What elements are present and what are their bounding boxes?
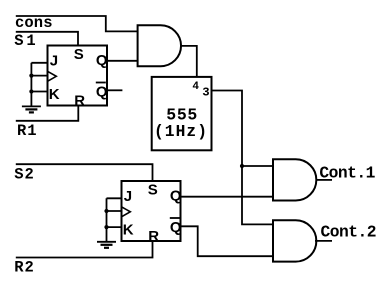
svg-text:4: 4 (192, 81, 199, 93)
svg-text:R: R (74, 92, 85, 109)
svg-text:S2: S2 (14, 165, 34, 183)
svg-text:Q: Q (170, 219, 182, 236)
svg-text:K: K (123, 221, 134, 238)
svg-text:R1: R1 (17, 122, 37, 140)
svg-text:Cont.2: Cont.2 (321, 223, 377, 242)
svg-text:Cont.1: Cont.1 (319, 164, 375, 183)
svg-text:S: S (74, 46, 84, 63)
svg-text:3: 3 (202, 86, 209, 100)
svg-text:K: K (49, 86, 60, 103)
svg-text:J: J (124, 188, 132, 205)
svg-text:Q: Q (96, 83, 108, 100)
svg-text:(1Hz): (1Hz) (154, 122, 207, 141)
svg-text:R: R (148, 228, 159, 245)
svg-text:S: S (148, 181, 158, 198)
svg-text:Q: Q (96, 52, 108, 69)
svg-text:Q: Q (170, 187, 182, 204)
svg-text:J: J (50, 53, 58, 70)
svg-text:R2: R2 (14, 259, 34, 277)
svg-text:cons: cons (15, 14, 53, 32)
